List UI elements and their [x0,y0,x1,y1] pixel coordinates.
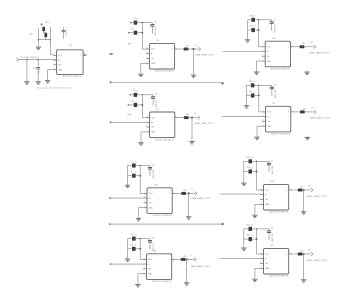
U5 output stub [83,52,86,54]
svg-text:VCC: VCC [151,49,156,51]
net flag SMA_SMB2_OUT1 [198,47,200,51]
svg-text:SMB_CABLE_OUT7: SMB_CABLE_OUT7 [307,195,328,198]
junction bus top R4 [142,94,144,96]
ground below R13 [245,38,250,42]
resistor R4 [131,90,142,97]
wire R15 to net flag [304,46,313,48]
svg-text:4: 4 [261,267,262,269]
resistor R7 [128,161,141,167]
series resistor R21 [298,186,304,191]
svg-text:R2: R2 [131,28,133,30]
wire to capacitor C2 [142,94,153,96]
series resistor R6 [184,114,189,119]
svg-text:SN74LVC1G34DCK: SN74LVC1G34DCK [271,134,291,136]
buffer IC U8 [260,184,292,210]
wire R3 to net flag [188,48,198,50]
wire R18 output [294,111,300,113]
svg-text:A: A [151,121,153,124]
note text [37,87,72,90]
junction right resistor net [50,39,52,41]
resistor R28 [30,33,48,40]
svg-text:FB2: FB2 [128,115,133,117]
designator U3 [154,185,158,187]
svg-text:C8: C8 [271,228,273,230]
capacitor C14 at U5 VCC [62,27,67,38]
svg-text:SMB_CABLE_OUT6: SMB_CABLE_OUT6 [310,117,331,120]
designator above flag SMB_CABLE_OUT8 [308,249,310,251]
svg-text:1K: 1K [135,161,138,163]
svg-text:2: 2 [262,50,263,52]
part number label U2 [155,139,175,141]
svg-text:GND: GND [267,61,272,63]
svg-text:SN74LVC1G34DCK: SN74LVC1G34DCK [269,276,289,278]
series resistor R9 [181,190,186,195]
junction output SMB_CABLE_OUT7 [303,189,305,191]
svg-text:A: A [267,115,269,118]
resistor R11 [128,244,141,251]
series resistor R12 [181,256,187,261]
wire R12 to net flag [186,258,195,260]
svg-text:2: 2 [144,196,145,198]
junction output SMA_SMB2_OUT2 [191,116,193,118]
svg-text:4: 4 [262,59,263,61]
ground under IC [138,141,143,145]
junction A left [110,81,112,83]
svg-text:OE: OE [58,65,61,67]
wire R15 output [294,46,300,48]
svg-text:R22: R22 [247,225,250,227]
wire GND pin to ground [257,126,262,135]
resistor R14 [248,26,259,32]
svg-text:3: 3 [261,262,262,264]
pin2 stub net M1 [110,53,113,54]
svg-text:A: A [148,263,150,266]
wire to capacitor C3 [140,165,150,167]
svg-text:Y: Y [288,112,290,114]
capacitor C4 [148,238,154,252]
svg-text:R14: R14 [250,26,253,28]
svg-text:3V3_SMB_CABLE_A: 3V3_SMB_CABLE_A [20,56,40,59]
wire C13 to ground [37,69,39,80]
svg-text:OE: OE [151,127,154,129]
svg-text:R23: R23 [247,235,250,237]
svg-text:R15: R15 [302,43,305,45]
ground below R19 [241,182,246,186]
wire left branch [37,28,39,45]
junction bus R17 [258,95,260,97]
ground below R16 [244,104,249,108]
wire U5 GND pin to ground [48,70,54,80]
part number label U5 [63,76,83,78]
buffer IC U9 [260,248,292,274]
wire output drop to ground SMB_CABLE_OUT7 [303,190,305,210]
wire left leg R13 [247,20,249,39]
wire R9 to net flag [186,192,195,194]
svg-text:R21: R21 [300,186,303,188]
junction on input wire 2 [37,59,39,61]
svg-text:SMA_SMB2_OUT3: SMA_SMB2_OUT3 [191,197,211,200]
ground left branch [36,46,41,50]
ground under IC [136,217,141,221]
junction output SMA_SMB2_OUT1 [192,48,194,50]
svg-text:2: 2 [144,262,145,264]
svg-text:4: 4 [289,252,290,254]
svg-text:1K: 1K [254,91,257,93]
ground under output SMA_SMB2_OUT4 [184,281,189,285]
svg-text:Y: Y [172,117,174,119]
wire output drop to ground SMA_SMB2_OUT3 [188,193,190,215]
svg-text:GND: GND [267,126,272,128]
capacitor C2 [151,94,157,108]
power symbol 3V3 R4 [129,94,131,96]
buffer IC U4 [143,254,175,280]
svg-text:C3: C3 [152,165,154,167]
wire R6 to net flag [189,117,198,119]
wire to capacitor C1 [142,22,152,24]
svg-text:1K: 1K [254,16,257,18]
net flag SMA_SMB2_OUT4 [194,258,196,262]
wire R21 to net flag [303,189,312,191]
svg-text:GND: GND [58,69,63,71]
junction bus R5 [141,104,143,106]
svg-text:U9: U9 [271,245,275,247]
wire bus R10 [140,239,147,260]
svg-text:Note: op amp. Not implemented: Note: op amp. Not implemented on latest [37,87,72,90]
resistor R5 [128,101,143,108]
ground under IC [252,278,257,282]
svg-text:A: A [267,50,269,53]
wire bus R16 [259,85,266,112]
ground under IC [254,71,259,75]
ground under input wire [24,80,29,84]
wire bus R22 [257,229,264,254]
ground under IC [252,214,257,218]
ground under output SMA_SMB2_OUT2 [189,140,194,144]
svg-text:1K: 1K [135,234,138,236]
svg-text:1K: 1K [254,81,257,83]
svg-text:R8: R8 [131,171,133,173]
label FB2 [128,115,133,117]
junction bus R14 [258,29,260,31]
svg-text:Y: Y [169,259,171,261]
wire to capacitor C8 [257,228,269,230]
resistor R23 [244,235,257,242]
svg-text:VCC: VCC [151,117,156,119]
svg-text:R24: R24 [300,250,303,252]
svg-text:OE: OE [265,199,268,201]
wire GND pin to ground [138,208,143,217]
svg-text:GND: GND [265,204,270,206]
net label SMA_SMB2_OUT3 [191,197,211,200]
designator U7 [273,103,277,105]
wire left leg R7 [127,166,129,184]
junction bus R20 [256,171,258,173]
svg-text:VCC: VCC [265,190,270,192]
junction B right [221,223,223,225]
junction bus R11 [139,248,141,250]
wire net into U7 pin2 [222,116,262,118]
net label SMB_CABLE_OUT6 [310,117,331,120]
net flag SMA_SMB2_OUT2 [198,116,200,120]
designator above flag SMA_SMB2_OUT2 [194,113,196,115]
svg-text:4: 4 [289,188,290,190]
wire left leg R19 [243,161,245,181]
svg-text:R?: R? [308,185,310,187]
junction bus top R16 [258,85,260,87]
wire R6 output [178,117,184,119]
wire GND pin to ground [257,61,262,70]
svg-text:3V3_SMB: 3V3_SMB [270,234,272,243]
wire GND pin to ground [255,268,260,277]
ground below R10 [125,258,130,262]
svg-text:SN74LVC1G34DCK: SN74LVC1G34DCK [63,76,83,78]
svg-text:R4: R4 [133,90,135,92]
svg-text:C13: C13 [33,68,36,70]
svg-text:FB1: FB1 [128,44,133,46]
junction B left [109,223,111,225]
wire net into U2 pin2 [110,121,146,123]
designator above flag SMA_SMB2_OUT3 [191,189,193,191]
svg-text:SMA_SMB2_OUT4: SMA_SMB2_OUT4 [191,265,211,268]
ground under IC [254,136,259,140]
designator U8 [271,181,275,183]
wire output drop to ground SMA_SMB2_OUT2 [191,118,193,141]
svg-text:Y: Y [80,55,82,57]
net label SMA_SMB2_OUT1 [195,53,215,56]
svg-text:R11: R11 [131,244,134,246]
net label SMB_CABLE_OUT5 [309,51,330,54]
svg-text:Y: Y [288,47,290,49]
svg-text:OE: OE [267,56,270,58]
part number label U4 [152,281,172,283]
designator U5 [70,45,74,47]
designator U1 [156,40,160,42]
svg-text:VCC: VCC [267,47,272,49]
svg-text:3V3_SMB: 3V3_SMB [151,243,153,252]
svg-text:VCC: VCC [148,259,153,261]
wire output drop to ground SMB_CABLE_OUT8 [303,254,305,278]
svg-text:4: 4 [173,192,174,194]
wire output drop to ground SMA_SMB2_OUT1 [193,49,195,74]
svg-text:2: 2 [261,193,262,195]
resistor R17 [247,91,259,98]
wire bus R1 [142,23,149,49]
svg-text:VCC: VCC [267,112,272,114]
svg-text:R12: R12 [183,256,186,258]
resistor R2 [128,28,142,35]
designator above flag SMB_CABLE_OUT5 [311,42,313,44]
series resistor R18 [300,108,306,113]
resistor R8 [128,171,141,178]
svg-text:R7: R7 [131,161,133,163]
designator U6 [272,38,276,40]
svg-text:Y: Y [286,190,288,192]
svg-text:3: 3 [262,55,263,57]
wire net into U8 pin2 [220,193,260,195]
svg-text:R28: R28 [30,34,33,36]
wire GND pin to ground [138,274,143,283]
wire R3 output [178,48,184,50]
svg-text:3: 3 [261,198,262,200]
capacitor C8 [267,228,273,242]
junction bus top R13 [258,19,260,21]
svg-text:C6: C6 [274,85,276,87]
svg-text:R16: R16 [249,81,252,83]
svg-text:VCC: VCC [149,193,154,195]
resistor R13 [248,15,259,22]
svg-text:1K: 1K [136,18,139,20]
part number label U8 [269,212,289,214]
capacitor C5 [270,19,276,33]
designator U9 [271,245,275,247]
svg-text:OE: OE [151,58,154,60]
svg-text:SMB_CABLE_OUT5: SMB_CABLE_OUT5 [309,51,330,54]
wire output drop to ground SMA_SMB2_OUT4 [186,259,188,281]
junction bus R23 [256,238,258,240]
svg-text:4: 4 [144,206,145,208]
designator above flag SMA_SMB2_OUT1 [195,45,197,47]
svg-text:Y: Y [286,254,288,256]
capacitor C7 [267,161,273,175]
svg-text:R17: R17 [249,91,252,93]
svg-text:1K: 1K [135,172,138,174]
wire R18 to net flag [305,111,314,113]
svg-text:L1: L1 [195,45,197,47]
svg-text:4: 4 [144,272,145,274]
junction bus R8 [139,175,141,177]
svg-text:OE: OE [267,121,270,123]
part number label U6 [271,69,291,71]
series resistor R15 [300,43,306,48]
svg-text:Y: Y [169,193,171,195]
wire input to U5 pin A [19,59,57,61]
wire left leg R10 [127,239,129,258]
svg-text:C4: C4 [152,238,154,240]
svg-text:SMA_SMB2_OUT1: SMA_SMB2_OUT1 [195,53,215,56]
svg-text:U8: U8 [271,181,275,183]
svg-text:A: A [265,257,267,260]
svg-text:SN74LVC1G34DCK: SN74LVC1G34DCK [271,69,291,71]
wire R9 output [176,192,182,194]
ground under IC [135,283,140,287]
svg-text:SN74LVC1G34DCK: SN74LVC1G34DCK [155,71,175,73]
svg-text:VCC: VCC [265,254,270,256]
ground below R7 [125,184,130,188]
svg-text:1K: 1K [254,26,257,28]
svg-text:OE: OE [148,269,151,271]
capacitor C1 [150,22,156,36]
designator above flag SMB_CABLE_OUT6 [311,107,313,109]
svg-text:C7: C7 [271,161,273,163]
svg-text:U5: U5 [70,45,74,47]
svg-text:R1: R1 [133,18,135,20]
svg-text:A: A [149,197,151,200]
net label SMB_CABLE_OUT7 [307,195,328,198]
svg-text:2: 2 [261,257,262,259]
svg-text:3V3_SMB: 3V3_SMB [155,99,157,108]
svg-text:GND: GND [149,207,154,209]
wire net into U9 pin2 [220,258,260,260]
svg-text:1K: 1K [136,91,139,93]
part number label U9 [269,276,289,278]
wire bus R4 [142,95,149,118]
long net wire B [110,223,223,225]
svg-text:U3: U3 [154,185,158,187]
junction output SMA_SMB2_OUT4 [186,258,188,260]
svg-text:R13: R13 [250,15,253,17]
svg-text:1K: 1K [47,22,50,24]
buffer IC U3 [144,188,176,214]
net label 3V3_SMB_CABLE_A [16,56,39,61]
wire R24 to net flag [303,253,312,255]
wire to capacitor C6 [259,84,272,86]
wire GND pin to ground [141,63,146,72]
wire to capacitor C4 [140,238,150,240]
resistor R16 [247,81,259,87]
svg-text:SMA_SMB2_OUT2: SMA_SMB2_OUT2 [195,122,215,125]
wire bus R13 [259,20,266,47]
ground under output SMB_CABLE_OUT7 [301,210,306,214]
junction output SMA_SMB2_OUT3 [188,192,190,194]
svg-text:R10: R10 [131,234,134,236]
part number label U7 [271,134,291,136]
svg-text:SN74LVC1G34DCK: SN74LVC1G34DCK [269,212,289,214]
buffer IC U1 [146,43,178,69]
svg-text:L1: L1 [191,189,193,191]
net flag SMB_CABLE_OUT6 [314,110,316,114]
svg-text:A: A [265,193,267,196]
svg-text:R?: R? [311,42,313,44]
svg-text:SN74LVC1G34DCK: SN74LVC1G34DCK [153,215,173,217]
svg-text:3V3_SMB: 3V3_SMB [273,90,275,99]
svg-text:C14 0.1uF: C14 0.1uF [65,29,67,36]
svg-text:U7: U7 [273,103,277,105]
svg-text:GND: GND [151,63,156,65]
svg-text:Y: Y [172,49,174,51]
svg-text:3: 3 [144,267,145,269]
wire drop through C13 [37,60,39,68]
ground under IC [138,73,143,77]
junction A right [221,82,223,84]
svg-text:R?: R? [311,107,313,109]
junction bus R2 [141,32,143,34]
wire to capacitor C7 [257,160,269,162]
svg-text:1K: 1K [251,235,254,237]
resistor R10 [128,234,141,241]
svg-text:R5: R5 [131,101,133,103]
power symbol 3V3 R1 [130,22,132,24]
series resistor R3 [184,45,189,50]
svg-text:1K: 1K [251,167,254,169]
svg-text:SN74LVC1G34DCK: SN74LVC1G34DCK [152,281,172,283]
svg-text:U2: U2 [157,109,161,111]
buffer IC U6 [262,41,294,67]
svg-text:R6: R6 [186,114,188,116]
junction net U4 pin2 [110,263,112,265]
designator above flag SMA_SMB2_OUT4 [191,255,193,257]
svg-text:3V3_SMB: 3V3_SMB [273,24,275,33]
junction output SMB_CABLE_OUT8 [303,253,305,255]
svg-text:4: 4 [172,258,173,260]
label FB1 [128,44,133,46]
svg-text:3V3_SMB: 3V3_SMB [270,166,272,175]
svg-text:U6: U6 [272,38,276,40]
wire drop to ground [26,60,28,81]
part number label U1 [155,71,175,73]
net label SMB_CABLE_OUT8 [307,259,328,262]
capacitor C13 [33,68,40,74]
svg-text:4: 4 [261,203,262,205]
